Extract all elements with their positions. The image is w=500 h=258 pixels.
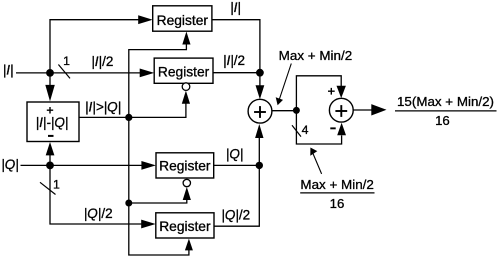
arrowhead R2 clock into bubble [182, 91, 190, 104]
slash divide-by-4 mark [292, 125, 301, 136]
arrowhead adder A2 top input [337, 86, 346, 98]
wire |I| input horizontal [16, 72, 142, 74]
fraction bar result [395, 110, 497, 112]
arrowhead into R3 input [141, 161, 156, 170]
svg-text:Max + Min/2: Max + Min/2 [279, 48, 353, 63]
wire comparator output to R2 clock [79, 103, 186, 117]
wire feedback top path to adder A2 plus [296, 76, 341, 111]
register R3 [156, 153, 214, 178]
wire clock down branch to R3 [129, 117, 187, 203]
label - adder A2 bottom [330, 127, 335, 129]
arrowhead R3 clock into bubble [183, 187, 191, 200]
register R1 [153, 6, 212, 31]
arrowhead R1 clock [182, 32, 190, 45]
annotation arrow line Max+Min/2 over 16 bottom [312, 151, 322, 174]
svg-text:|I|/2: |I|/2 [91, 54, 113, 69]
arrowhead comparator top input [45, 85, 55, 102]
svg-text:1: 1 [63, 54, 70, 68]
wire |Q|/2 branch down to Register R4 [50, 165, 143, 224]
svg-text:|I|/2: |I|/2 [223, 53, 245, 68]
svg-text:|I|: |I| [230, 0, 241, 15]
wire comparator bottom input [49, 155, 51, 166]
wire adder A2 output [353, 109, 372, 111]
clock bubble R2 [182, 83, 190, 91]
svg-text:|Q|: |Q| [226, 146, 244, 161]
svg-text:|Q|/2: |Q|/2 [84, 206, 113, 221]
svg-text:|I|: |I| [3, 62, 14, 77]
slash bit-width mark on |I|/2 line [58, 65, 70, 79]
svg-text:Register: Register [159, 219, 211, 234]
svg-text:|I|-|Q|: |I|-|Q| [36, 115, 69, 130]
arrowhead comparator bottom input [46, 142, 55, 155]
svg-text:Register: Register [159, 159, 211, 174]
wire clock bottom branch to R4 [129, 203, 189, 255]
svg-text:Register: Register [157, 13, 209, 28]
arrowhead annotation bottom [310, 148, 317, 156]
svg-text:Register: Register [158, 65, 210, 80]
node clock junction upper [125, 114, 132, 121]
arrowhead adder A1 bottom input [255, 124, 263, 138]
svg-text:Max + Min/2: Max + Min/2 [300, 177, 374, 192]
svg-text:4: 4 [302, 123, 309, 137]
arrowhead output big [371, 104, 386, 115]
register R4 [156, 213, 214, 238]
wire R4 output to adder A1 bottom [214, 136, 259, 226]
arrowhead into R2 input [140, 69, 155, 78]
wire clock up branch to R1 [129, 43, 187, 117]
clock bubble R3 [183, 179, 190, 186]
node |Q| |Q|/2 join [256, 162, 263, 169]
svg-text:15(Max + Min/2): 15(Max + Min/2) [397, 94, 494, 109]
arrowhead adder A1 top input [256, 85, 265, 99]
svg-text:16: 16 [330, 196, 345, 211]
comparator U1 |I|-|Q| [27, 102, 79, 142]
svg-text:16: 16 [435, 113, 450, 128]
label + adder A2 top [328, 88, 335, 95]
wire R1 output to adder A1 top [212, 20, 260, 87]
wire |I| branch up to Register R1 [50, 20, 140, 73]
wire |Q| input horizontal [21, 164, 143, 166]
wire comparator top input [49, 73, 51, 87]
node adder A1 output junction [293, 107, 300, 114]
wire R2 output [213, 72, 260, 74]
wire R3 output [214, 164, 260, 166]
node |I| junction [46, 69, 54, 77]
svg-text:1: 1 [53, 178, 60, 192]
arrowhead into R4 input [141, 220, 156, 229]
arrowhead R4 clock [185, 239, 193, 251]
arrowhead annotation top [276, 97, 283, 105]
adder A1 [248, 99, 272, 123]
register R2 [154, 58, 213, 83]
node |I| |I|/2 join [256, 69, 264, 77]
arrowhead adder A2 bottom input [337, 123, 346, 136]
node clock junction lower [125, 200, 132, 207]
svg-text:|I|>|Q|: |I|>|Q| [85, 99, 121, 114]
fraction bar bottom annotation [300, 192, 374, 194]
node |Q| junction [46, 162, 54, 170]
adder A2 [329, 98, 353, 122]
arrowhead into R1 input [138, 15, 153, 24]
annotation arrow line Max+Min/2 top [279, 64, 292, 102]
slash bit-width mark on |Q|/2 line [40, 182, 56, 194]
svg-text:|Q|/2: |Q|/2 [221, 207, 250, 222]
wire feedback bottom path to adder A2 minus [296, 110, 341, 144]
svg-text:|Q|: |Q| [1, 157, 19, 172]
wire adder A1 output [272, 110, 297, 112]
